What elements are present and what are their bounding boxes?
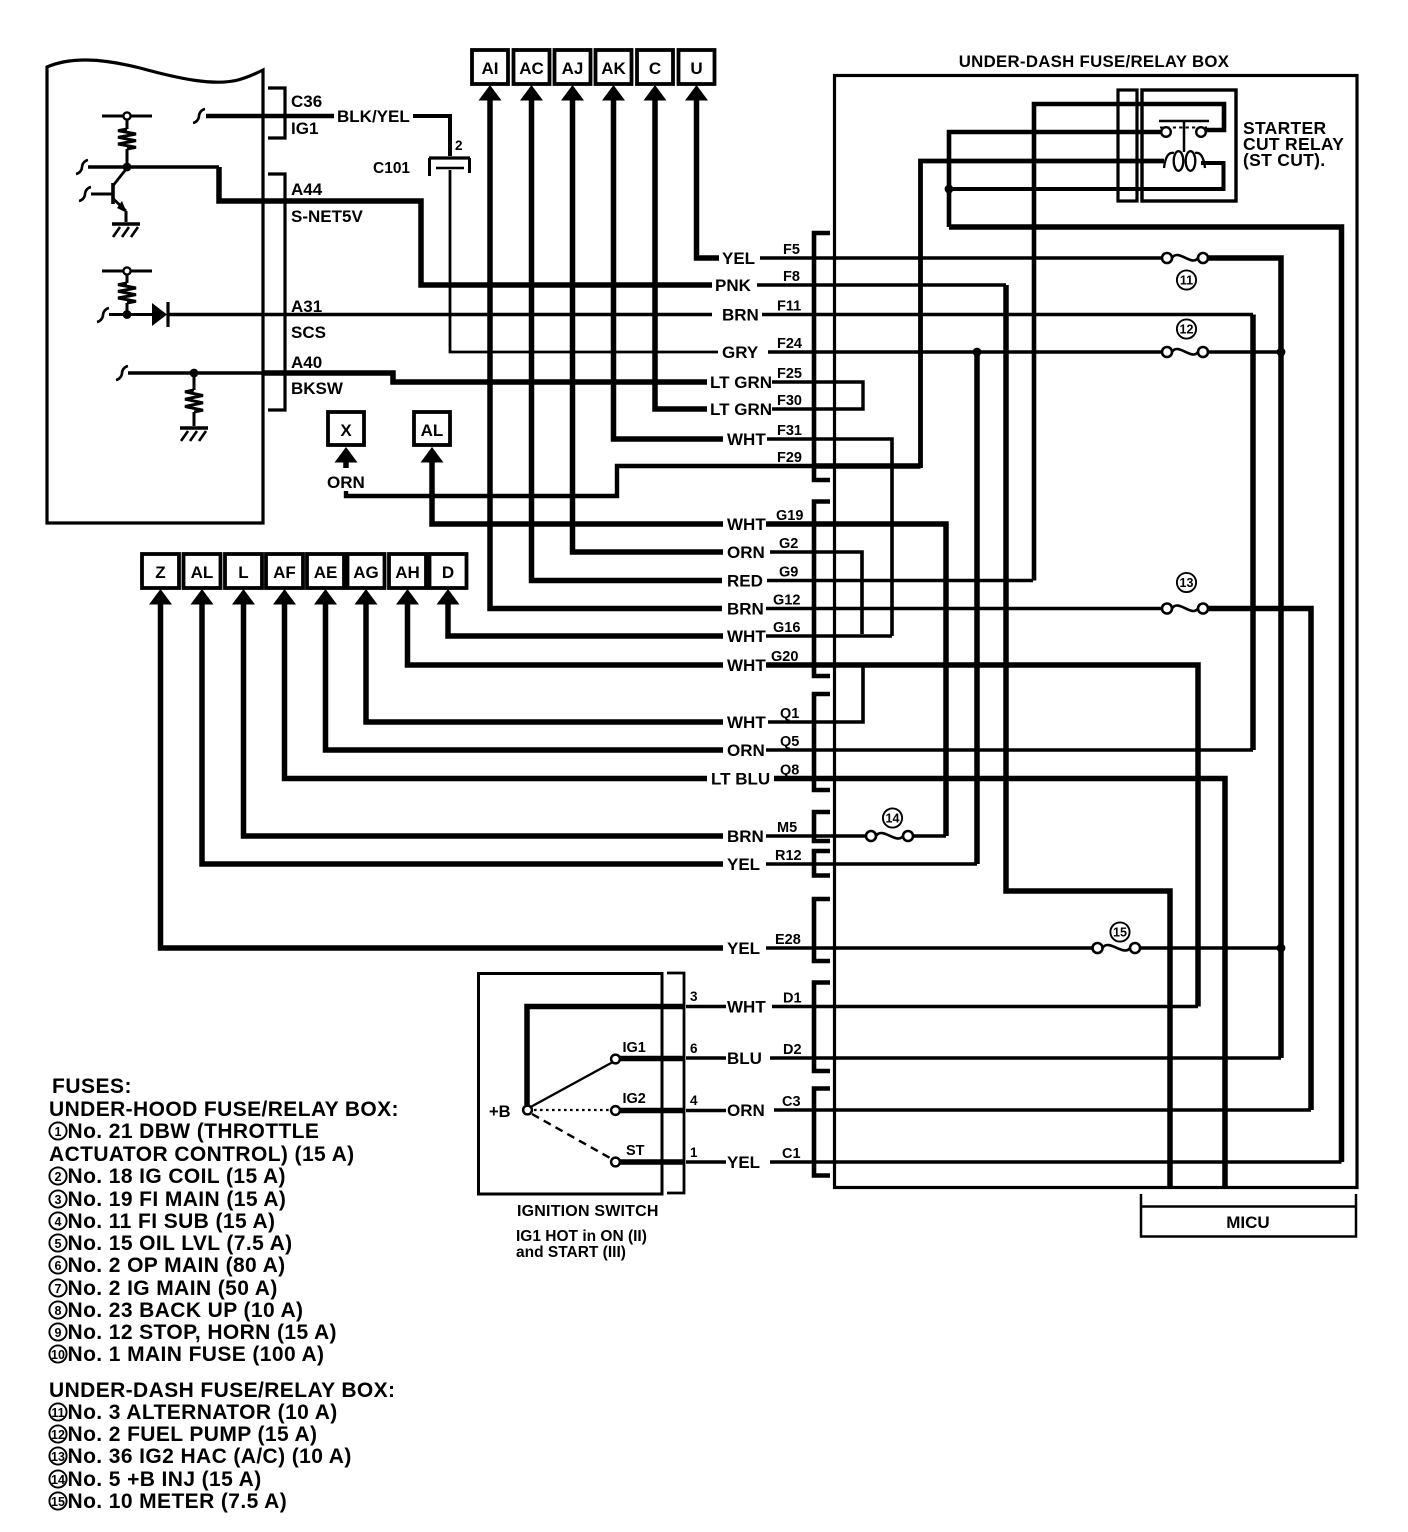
connector box AE (lower row) bbox=[307, 554, 344, 588]
wire BLK/YEL to capacitor C101 bbox=[413, 116, 450, 156]
svg-text:UNDER-HOOD FUSE/RELAY BOX:: UNDER-HOOD FUSE/RELAY BOX: bbox=[49, 1098, 399, 1121]
wire +B to D1 pin 3 bbox=[527, 1007, 684, 1106]
svg-text:13: 13 bbox=[51, 1450, 65, 1464]
arrow into L (lower row) bbox=[232, 589, 255, 605]
wire IG1 to D2 pin 6 bbox=[620, 1056, 684, 1062]
svg-text:L: L bbox=[238, 563, 248, 582]
connector box AG (lower row) bbox=[348, 554, 385, 588]
svg-text:MICU: MICU bbox=[1226, 1213, 1269, 1232]
connector box C bbox=[637, 50, 673, 84]
connector bracket M (M5) bbox=[814, 812, 830, 841]
svg-text:No. 2 FUEL PUMP (15 A): No. 2 FUEL PUMP (15 A) bbox=[68, 1423, 318, 1446]
transistor collector lead bbox=[114, 168, 128, 185]
svg-text:M5: M5 bbox=[777, 820, 797, 836]
svg-text:C3: C3 bbox=[782, 1094, 801, 1110]
wire fuse 14 output bbox=[911, 834, 946, 837]
svg-text:AH: AH bbox=[395, 563, 420, 582]
wire AK to WHT F31 bbox=[614, 98, 724, 439]
svg-text:2: 2 bbox=[455, 138, 463, 153]
svg-text:A44: A44 bbox=[291, 180, 323, 199]
wire IG2 to C3 pin 4 bbox=[620, 1108, 684, 1114]
svg-text:G9: G9 bbox=[779, 565, 798, 581]
svg-text:IG1 HOT in ON (II): IG1 HOT in ON (II) bbox=[516, 1228, 647, 1245]
svg-text:5: 5 bbox=[55, 1237, 62, 1251]
wire M5 row to fuse 14 bbox=[766, 834, 866, 837]
arrow into AF (lower row) bbox=[273, 589, 296, 605]
connector bracket C36 bbox=[268, 88, 285, 138]
wire R12 row bbox=[766, 862, 977, 865]
svg-text:F31: F31 bbox=[777, 423, 802, 439]
label legend item 4: No. 11 FI SUB (15 A) bbox=[49, 1212, 66, 1229]
wire G9 row to relay contact bus bbox=[767, 579, 1033, 582]
svg-text:No. 11 FI SUB (15 A): No. 11 FI SUB (15 A) bbox=[68, 1210, 276, 1233]
svg-text:15: 15 bbox=[1113, 926, 1127, 940]
connector box AC bbox=[514, 50, 550, 84]
wire pin1 to YEL bbox=[686, 1160, 726, 1163]
svg-text:6: 6 bbox=[55, 1259, 62, 1273]
svg-text:IGNITION SWITCH: IGNITION SWITCH bbox=[517, 1203, 659, 1220]
svg-text:A40: A40 bbox=[291, 353, 322, 372]
svg-text:14: 14 bbox=[51, 1473, 65, 1487]
connector box U bbox=[679, 50, 715, 84]
svg-text:IG1: IG1 bbox=[291, 119, 318, 138]
fuse 13 symbol (No.36 IG2 HAC) bbox=[1162, 604, 1172, 614]
svg-text:LT BLU: LT BLU bbox=[711, 770, 770, 789]
wire AG feed bbox=[366, 602, 723, 722]
arrow into AI bbox=[479, 85, 502, 101]
wire: SCS output A31 bbox=[168, 313, 712, 316]
svg-text:Z: Z bbox=[155, 563, 165, 582]
svg-text:BRN: BRN bbox=[727, 600, 764, 619]
wire relay coil right branch bbox=[949, 163, 1224, 189]
connector box D (lower row) bbox=[430, 554, 467, 588]
arrow into AL (lower row) bbox=[191, 589, 214, 605]
svg-text:ACTUATOR CONTROL) (15 A): ACTUATOR CONTROL) (15 A) bbox=[49, 1143, 355, 1166]
svg-text:FUSES:: FUSES: bbox=[52, 1075, 132, 1098]
svg-text:F11: F11 bbox=[777, 299, 801, 315]
label legend item 5: No. 15 OIL LVL (7.5 A) bbox=[49, 1234, 66, 1251]
svg-text:UNDER-DASH FUSE/RELAY BOX: UNDER-DASH FUSE/RELAY BOX bbox=[959, 52, 1230, 71]
svg-text:F5: F5 bbox=[783, 242, 800, 258]
wire C3 row bbox=[774, 1108, 1311, 1111]
connector box X bbox=[328, 412, 364, 445]
label legend item 8: No. 23 BACK UP (10 A) bbox=[49, 1301, 66, 1318]
svg-text:AL: AL bbox=[421, 421, 444, 440]
svg-text:BKSW: BKSW bbox=[291, 379, 344, 398]
relay contact dashed line bbox=[1160, 127, 1207, 129]
under-dash fuse/relay box outline bbox=[835, 76, 1358, 1188]
node: diode junction dot bbox=[123, 310, 132, 319]
svg-text:LT GRN: LT GRN bbox=[710, 400, 772, 419]
svg-text:G2: G2 bbox=[779, 536, 798, 552]
wire D feed bbox=[448, 602, 723, 636]
svg-text:Q1: Q1 bbox=[780, 706, 799, 722]
svg-text:G12: G12 bbox=[773, 593, 800, 609]
switch input circuit (bottom) wire BKSW bbox=[116, 366, 128, 380]
wire AI to BRN G12 bbox=[490, 98, 722, 609]
svg-text:2: 2 bbox=[55, 1170, 62, 1184]
wire BKSW A40 to LT GRN F25 row bbox=[263, 373, 707, 382]
svg-text:No. 12 STOP, HORN (15 A): No. 12 STOP, HORN (15 A) bbox=[68, 1321, 337, 1344]
wire ORN X to F29 row bbox=[346, 466, 813, 496]
wire: junction row to S-NET5V output bbox=[76, 160, 88, 174]
label circled 12 bbox=[1177, 319, 1196, 338]
svg-text:No. 21 DBW (THROTTLE: No. 21 DBW (THROTTLE bbox=[68, 1120, 320, 1143]
label legend item 6: No. 2 OP MAIN (80 A) bbox=[49, 1256, 66, 1273]
MICU box bbox=[1141, 1194, 1356, 1237]
svg-text:14: 14 bbox=[886, 812, 900, 826]
dotted line +B to IG2 bbox=[534, 1109, 609, 1111]
label legend item 14: No. 5 +B INJ (15 A) bbox=[49, 1470, 66, 1487]
svg-text:ST: ST bbox=[626, 1143, 645, 1159]
pull-up resistor circuit (top): supply rail with terminal circle bbox=[102, 115, 123, 118]
svg-text:+B: +B bbox=[489, 1103, 511, 1121]
label legend item 3: No. 19 FI MAIN (15 A) bbox=[49, 1190, 66, 1207]
connector box AL (upper) bbox=[414, 412, 450, 445]
svg-text:YEL: YEL bbox=[727, 855, 760, 874]
svg-text:C1: C1 bbox=[782, 1146, 801, 1162]
svg-text:F29: F29 bbox=[777, 450, 802, 466]
svg-text:F25: F25 bbox=[777, 366, 802, 382]
capacitor C101 (condenser) bbox=[429, 156, 470, 159]
connector bracket F (F5-F29) bbox=[814, 233, 830, 480]
wire E28 row to fuse 15 bbox=[766, 946, 1093, 949]
wire D2 row bbox=[770, 1056, 1281, 1059]
ECM/PCM block outline (torn top edge) bbox=[47, 60, 263, 523]
transistor base lead bbox=[79, 187, 91, 201]
svg-text:7: 7 bbox=[55, 1282, 62, 1296]
dashed line +B to ST bbox=[532, 1114, 610, 1158]
wire relay coil left (F29/ORN bus) bbox=[921, 161, 1165, 468]
connector bracket D (D1-D2) bbox=[814, 983, 830, 1072]
svg-text:(ST CUT).: (ST CUT). bbox=[1243, 150, 1325, 170]
svg-text:No. 19 FI MAIN (15 A): No. 19 FI MAIN (15 A) bbox=[68, 1188, 287, 1211]
connector box AH (lower row) bbox=[389, 554, 426, 588]
wire relay contact left / coil right bus bbox=[949, 132, 1162, 227]
svg-text:No. 23 BACK UP (10 A): No. 23 BACK UP (10 A) bbox=[68, 1299, 304, 1322]
arrow into AJ bbox=[561, 85, 584, 101]
wire AH feed bbox=[408, 602, 724, 665]
wire Q8 row to MICU bus bbox=[774, 779, 1225, 1187]
node junction dot relay bus bbox=[945, 185, 954, 194]
wire AL feed bbox=[202, 602, 723, 864]
arrow into D (lower row) bbox=[437, 589, 460, 605]
svg-text:WHT: WHT bbox=[727, 430, 766, 449]
label legend item 1: No. 21 DBW (THROTTLE bbox=[49, 1122, 66, 1139]
fuse 15 symbol (No.10 METER) bbox=[1093, 943, 1103, 953]
wire Q5 row bbox=[766, 748, 1253, 751]
wire pin3 to WHT bbox=[686, 1005, 726, 1008]
svg-text:AJ: AJ bbox=[562, 59, 584, 78]
wire C36 IG1 to BLK/YEL bbox=[193, 109, 205, 123]
svg-text:RED: RED bbox=[727, 572, 763, 591]
fuse 12 symbol (No.2 FUEL PUMP) bbox=[1162, 347, 1172, 357]
wire S-NET5V A44 to PNK F8 row bbox=[263, 201, 712, 285]
ignition ST terminal circle bbox=[611, 1158, 620, 1167]
wire fuse 11 output main bus bbox=[1208, 258, 1281, 1058]
label circled 13 bbox=[1177, 573, 1196, 592]
svg-text:UNDER-DASH FUSE/RELAY BOX:: UNDER-DASH FUSE/RELAY BOX: bbox=[49, 1379, 395, 1402]
svg-text:PNK: PNK bbox=[715, 276, 752, 295]
connector box AL (lower row) bbox=[184, 554, 221, 588]
resistor (pull-down, bottom circuit) bbox=[193, 373, 196, 390]
resistor (middle circuit) bbox=[126, 275, 129, 283]
label legend item 12: No. 2 FUEL PUMP (15 A) bbox=[49, 1425, 66, 1442]
pull-up resistor circuit (middle): supply rail with terminal circle bbox=[102, 270, 123, 273]
ignition +B terminal circle bbox=[523, 1106, 532, 1115]
wire fuse 12 output bbox=[1208, 350, 1281, 353]
ignition IG1 terminal circle bbox=[611, 1055, 620, 1064]
arrow into AL bbox=[421, 447, 444, 463]
svg-text:AG: AG bbox=[353, 563, 379, 582]
svg-text:No. 3 ALTERNATOR (10 A): No. 3 ALTERNATOR (10 A) bbox=[68, 1401, 338, 1424]
wire: to diode anode bbox=[97, 308, 109, 322]
svg-text:AF: AF bbox=[273, 563, 296, 582]
wire AF feed bbox=[285, 602, 708, 779]
svg-text:WHT: WHT bbox=[727, 713, 766, 732]
wire AE feed bbox=[326, 602, 724, 750]
svg-text:4: 4 bbox=[690, 1093, 698, 1108]
svg-text:6: 6 bbox=[690, 1041, 698, 1056]
svg-text:15: 15 bbox=[51, 1495, 65, 1509]
svg-text:1: 1 bbox=[55, 1125, 62, 1139]
connector box Z (lower row) bbox=[142, 554, 179, 588]
wire capacitor to GRY F24 row bbox=[450, 170, 718, 352]
relay armature stem bbox=[1183, 121, 1186, 152]
wire relay contact feed (G9 bus) bbox=[1034, 104, 1224, 581]
svg-text:3: 3 bbox=[690, 989, 698, 1004]
resistor (top circuit) bbox=[126, 120, 129, 129]
svg-text:SCS: SCS bbox=[291, 323, 326, 342]
arrow into AE (lower row) bbox=[314, 589, 337, 605]
node junction dot E28/main bus bbox=[1277, 944, 1286, 953]
svg-text:F24: F24 bbox=[777, 336, 802, 352]
svg-text:GRY: GRY bbox=[722, 343, 759, 362]
connector box L (lower row) bbox=[225, 554, 262, 588]
ignition IG2 terminal circle bbox=[611, 1106, 620, 1115]
starter cut relay outline bbox=[1142, 90, 1236, 201]
node junction dot F24 branch bbox=[973, 348, 982, 357]
connector box AF (lower row) bbox=[266, 554, 303, 588]
wire C1 row bbox=[770, 1160, 1342, 1163]
arrow into AH (lower row) bbox=[396, 589, 419, 605]
svg-text:No. 10 METER (7.5 A): No. 10 METER (7.5 A) bbox=[68, 1490, 288, 1513]
svg-text:IG2: IG2 bbox=[623, 1091, 646, 1107]
connector bracket A44/A31/A40 bbox=[268, 174, 285, 410]
svg-text:BRN: BRN bbox=[727, 827, 764, 846]
fuse 14 symbol (No.5 +B INJ) bbox=[866, 831, 876, 841]
svg-text:8: 8 bbox=[55, 1304, 62, 1318]
svg-text:10: 10 bbox=[51, 1348, 65, 1362]
relay contact terminal circles bbox=[1161, 127, 1171, 137]
label legend item 11: No. 3 ALTERNATOR (10 A) bbox=[49, 1403, 66, 1420]
svg-text:1: 1 bbox=[690, 1145, 698, 1160]
label circled 15 bbox=[1110, 922, 1129, 941]
svg-text:E28: E28 bbox=[775, 932, 801, 948]
svg-text:BLK/YEL: BLK/YEL bbox=[337, 107, 410, 126]
svg-text:AI: AI bbox=[482, 59, 499, 78]
svg-text:F8: F8 bbox=[783, 269, 800, 285]
svg-text:S-NET5V: S-NET5V bbox=[291, 207, 363, 226]
arrow into AK bbox=[602, 85, 625, 101]
svg-text:11: 11 bbox=[51, 1406, 64, 1420]
svg-text:No. 36 IG2 HAC (A/C) (10 A): No. 36 IG2 HAC (A/C) (10 A) bbox=[68, 1445, 352, 1468]
svg-text:AL: AL bbox=[191, 563, 214, 582]
label legend item 13: No. 36 IG2 HAC (A/C) (10 A) bbox=[49, 1447, 66, 1464]
wire fuse 13 output to C3 bus bbox=[1208, 609, 1311, 1111]
wire relay output to C1 bus bbox=[949, 227, 1342, 1162]
ignition connector bracket bbox=[667, 973, 684, 1193]
wire fuse 15 output to junction bbox=[1139, 946, 1281, 949]
connector bracket G (G19-G20) bbox=[814, 502, 830, 677]
arrow into AC bbox=[520, 85, 543, 101]
label circled 11 bbox=[1177, 270, 1196, 289]
svg-text:12: 12 bbox=[1180, 323, 1194, 337]
connector bracket E (E28) bbox=[814, 899, 830, 961]
arrow into AG (lower row) bbox=[355, 589, 378, 605]
svg-text:X: X bbox=[340, 421, 352, 440]
node: junction dot to pull-down resistor bbox=[190, 369, 199, 378]
relay contact top bar bbox=[1159, 120, 1209, 123]
svg-text:No. 18 IG COIL (15 A): No. 18 IG COIL (15 A) bbox=[68, 1165, 286, 1188]
arrow into Z (lower row) bbox=[149, 589, 172, 605]
svg-text:A31: A31 bbox=[291, 297, 322, 316]
label legend item 2: No. 18 IG COIL (15 A) bbox=[49, 1167, 66, 1184]
wire D1 row bbox=[772, 1005, 1198, 1008]
svg-text:WHT: WHT bbox=[727, 656, 766, 675]
wire G16 row bbox=[766, 634, 892, 637]
label legend item 10: No. 1 MAIN FUSE (100 A) bbox=[49, 1345, 66, 1362]
connector box AI bbox=[472, 50, 508, 84]
wire F5 row to fuse 11 bbox=[760, 256, 1162, 259]
svg-text:LT GRN: LT GRN bbox=[710, 373, 772, 392]
svg-text:ORN: ORN bbox=[727, 1101, 765, 1120]
svg-text:WHT: WHT bbox=[727, 627, 766, 646]
wire AL to WHT G19 bbox=[432, 460, 723, 524]
svg-text:No. 15 OIL LVL (7.5 A): No. 15 OIL LVL (7.5 A) bbox=[68, 1232, 293, 1255]
wire F31 row jumper down to G16 bbox=[767, 439, 892, 636]
label legend item 9: No. 12 STOP, HORN (15 A) bbox=[49, 1323, 66, 1340]
arrow into C bbox=[644, 85, 667, 101]
wire F25 stub and jumper to F30 bbox=[772, 382, 863, 409]
ground (bottom circuit) bbox=[180, 426, 208, 429]
svg-text:YEL: YEL bbox=[727, 1153, 760, 1172]
wire pin4 to ORN bbox=[686, 1109, 726, 1112]
svg-text:YEL: YEL bbox=[727, 939, 760, 958]
svg-text:YEL: YEL bbox=[722, 249, 755, 268]
svg-text:ORN: ORN bbox=[327, 473, 365, 492]
svg-text:No. 5 +B INJ (15 A): No. 5 +B INJ (15 A) bbox=[68, 1468, 262, 1491]
wire G2 row jumper down to G16 bbox=[770, 552, 862, 634]
wire L feed bbox=[244, 602, 724, 836]
node: collector junction dot bbox=[123, 163, 132, 172]
node junction dot fuse 12 output bbox=[1277, 348, 1286, 357]
svg-text:12: 12 bbox=[51, 1428, 65, 1442]
svg-text:11: 11 bbox=[1180, 274, 1193, 288]
wire F8 bus to MICU bbox=[1006, 285, 1170, 1186]
svg-text:U: U bbox=[690, 59, 702, 78]
label legend item 15: No. 10 METER (7.5 A) bbox=[49, 1492, 66, 1509]
connector box AK bbox=[596, 50, 632, 84]
svg-text:IG1: IG1 bbox=[623, 1040, 646, 1056]
wire AC to RED G9 bbox=[532, 98, 723, 581]
arrow into X bbox=[335, 447, 358, 463]
svg-text:and START (III): and START (III) bbox=[516, 1244, 626, 1261]
svg-text:Q5: Q5 bbox=[780, 734, 799, 750]
svg-text:C36: C36 bbox=[291, 92, 322, 111]
wire C to LT GRN F30 bbox=[655, 98, 707, 409]
svg-text:3: 3 bbox=[55, 1193, 62, 1207]
svg-text:D: D bbox=[442, 563, 454, 582]
svg-text:13: 13 bbox=[1180, 576, 1194, 590]
connector bracket C (C3-C1) bbox=[814, 1089, 830, 1176]
svg-text:C: C bbox=[649, 59, 661, 78]
ignition switch rotor contact (solid line to IG1) bbox=[532, 1063, 613, 1107]
svg-text:No. 1 MAIN FUSE (100 A): No. 1 MAIN FUSE (100 A) bbox=[68, 1343, 325, 1366]
svg-text:ORN: ORN bbox=[727, 741, 765, 760]
label legend item 7: No. 2 IG MAIN (50 A) bbox=[49, 1279, 66, 1296]
arrow into U bbox=[685, 85, 708, 101]
svg-text:ORN: ORN bbox=[727, 543, 765, 562]
wire G20 row to D1 bus bbox=[766, 665, 1198, 1007]
ground (transistor emitter) bbox=[112, 222, 140, 225]
wire Z feed bbox=[161, 602, 724, 948]
svg-text:No. 2 OP MAIN (80 A): No. 2 OP MAIN (80 A) bbox=[68, 1254, 286, 1277]
wire F24 branch bus to R12 bbox=[974, 352, 980, 864]
svg-text:D1: D1 bbox=[783, 991, 802, 1007]
svg-text:AC: AC bbox=[519, 59, 544, 78]
diode D (SCS line) bbox=[152, 303, 167, 326]
relay coil bbox=[1174, 151, 1184, 171]
ignition switch box outline bbox=[479, 974, 663, 1195]
wire U to YEL F5 bbox=[697, 98, 720, 258]
svg-text:4: 4 bbox=[55, 1215, 62, 1229]
wire F8 row into box bbox=[757, 283, 1006, 286]
wire ST to C1 pin 1 bbox=[620, 1159, 684, 1165]
wire F29 row to relay coil bus bbox=[816, 463, 921, 469]
svg-text:9: 9 bbox=[55, 1326, 62, 1340]
wire Q1 row jumper up to G20 bbox=[768, 667, 863, 722]
svg-text:AE: AE bbox=[314, 563, 338, 582]
starter cut relay connector block bbox=[1118, 90, 1137, 201]
wire F11 bus down to Q5 bbox=[1250, 315, 1256, 751]
transistor emitter lead with arrow bbox=[114, 199, 127, 211]
wire pin6 to BLU bbox=[686, 1056, 726, 1059]
svg-text:R12: R12 bbox=[775, 848, 802, 864]
wire G12 row to fuse 13 bbox=[766, 607, 1162, 610]
svg-text:G16: G16 bbox=[773, 620, 800, 636]
label circled 14 bbox=[883, 808, 902, 827]
svg-text:WHT: WHT bbox=[727, 515, 766, 534]
svg-text:C101: C101 bbox=[373, 160, 410, 177]
svg-text:WHT: WHT bbox=[727, 998, 766, 1017]
connector box AJ bbox=[555, 50, 591, 84]
wire F24 row to fuse 12 bbox=[768, 350, 1162, 353]
connector bracket R (R12) bbox=[814, 851, 830, 876]
svg-text:No. 2 IG MAIN (50 A): No. 2 IG MAIN (50 A) bbox=[68, 1277, 278, 1300]
svg-text:D2: D2 bbox=[783, 1042, 802, 1058]
transistor Q (NPN) base bar bbox=[111, 183, 115, 204]
wire AJ to ORN G2 bbox=[573, 98, 724, 552]
wire G19 row to fuse-14 bus bbox=[766, 524, 946, 836]
svg-text:BLU: BLU bbox=[727, 1049, 762, 1068]
connector bracket Q (Q1-Q8) bbox=[814, 694, 830, 790]
svg-text:AK: AK bbox=[601, 59, 626, 78]
svg-text:BRN: BRN bbox=[722, 306, 759, 325]
wire F11 row into box bbox=[762, 313, 1253, 316]
svg-text:F30: F30 bbox=[777, 393, 802, 409]
fuse 11 symbol (No.3 ALTERNATOR) bbox=[1162, 253, 1172, 263]
